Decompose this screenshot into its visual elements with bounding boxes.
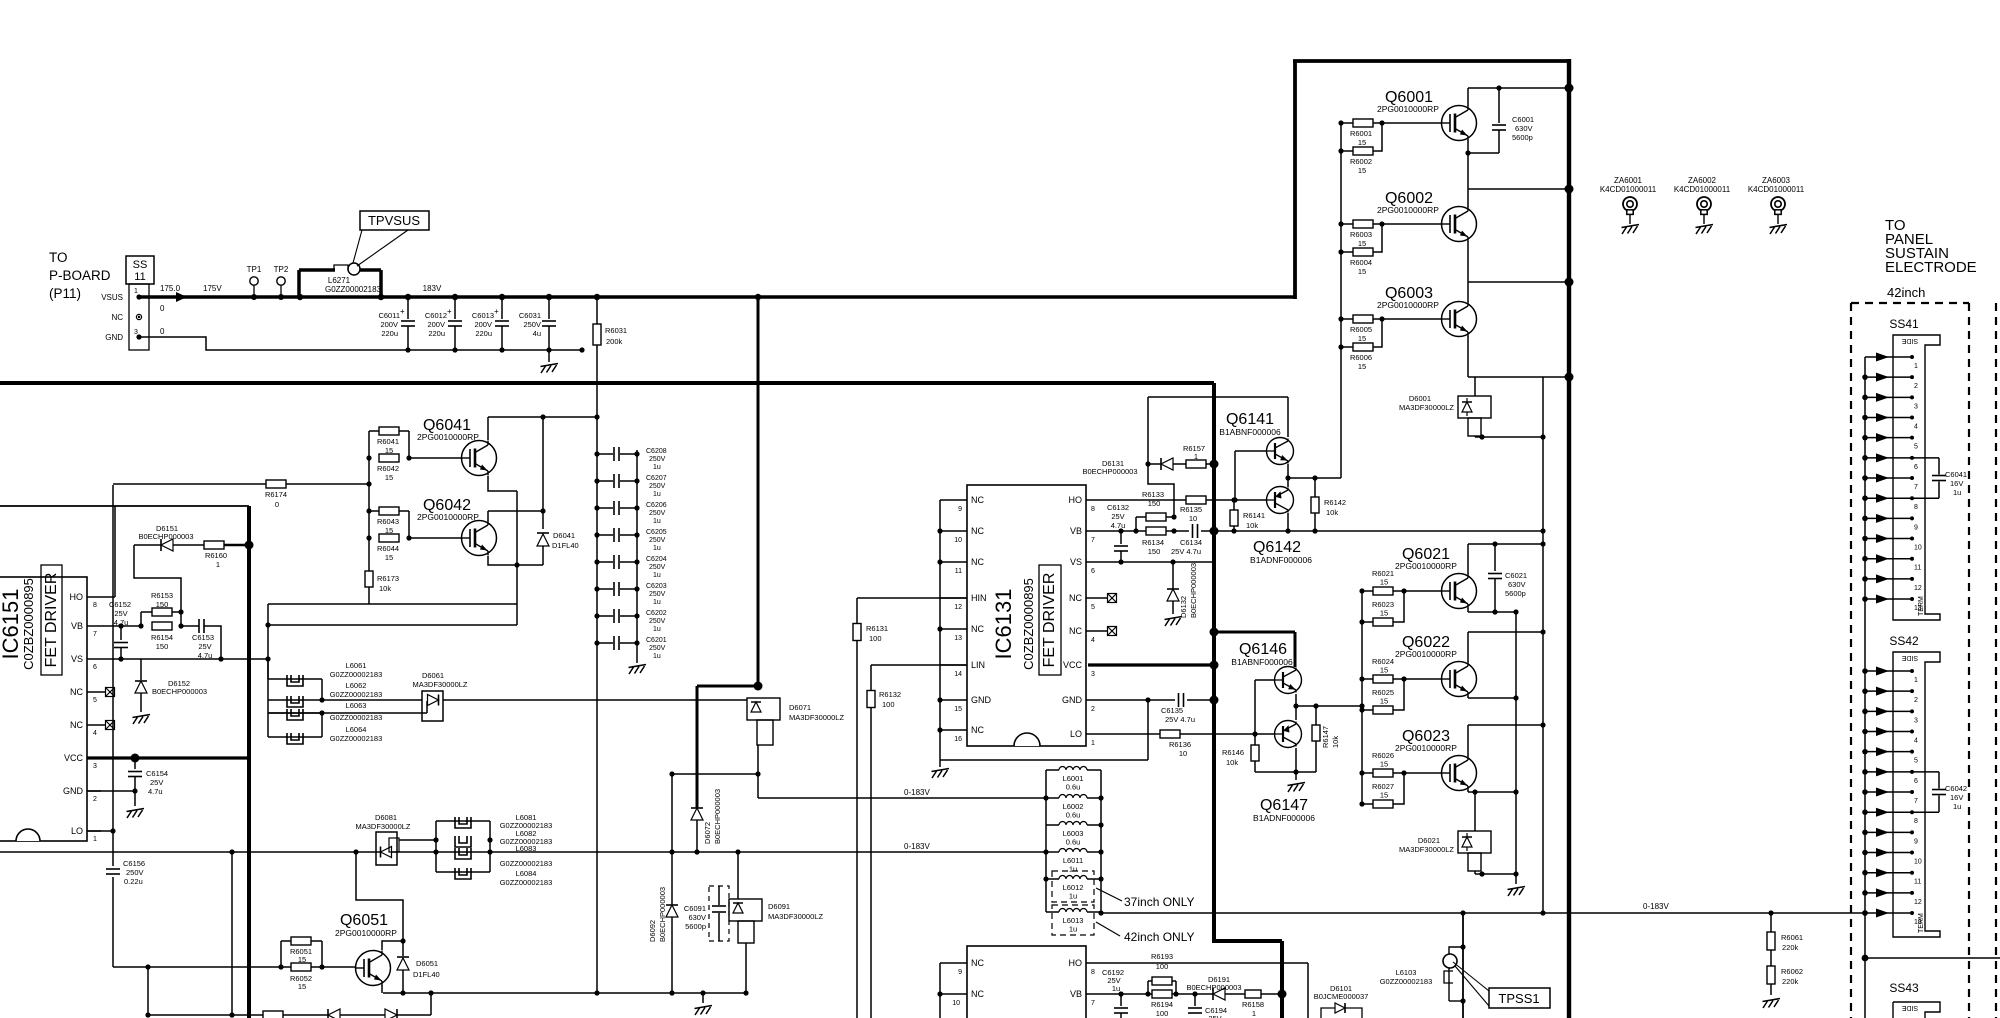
pin 8 HO IC6151 [87, 596, 101, 598]
svg-text:R6136: R6136 [1169, 740, 1191, 749]
resistor R6027 [1362, 803, 1373, 805]
svg-text:5600p: 5600p [1512, 133, 1533, 142]
wire thick VCC branch IC6151 [87, 756, 249, 759]
svg-text:2PG0010000RP: 2PG0010000RP [417, 512, 479, 522]
diode D6071 module [747, 698, 780, 720]
svg-text:11: 11 [1914, 565, 1921, 572]
svg-text:R6134: R6134 [1142, 538, 1164, 547]
wire rail y=377 [1468, 376, 1569, 378]
svg-text:1u: 1u [653, 626, 661, 633]
svg-text:C6042: C6042 [1945, 784, 1967, 793]
svg-text:15: 15 [1358, 362, 1366, 371]
inductor L6083 [455, 848, 471, 859]
svg-text:R6062: R6062 [1781, 967, 1803, 976]
svg-text:37inch ONLY: 37inch ONLY [1124, 895, 1194, 909]
svg-text:C6205: C6205 [646, 529, 667, 536]
pin 9 NC IC6132 [940, 962, 967, 964]
node 0-183V to SS42 [1101, 912, 1865, 914]
inductor L6064 [268, 736, 322, 738]
svg-text:1u: 1u [653, 599, 661, 606]
connector SS11 [126, 256, 154, 284]
svg-text:MA3DF30000LZ: MA3DF30000LZ [768, 912, 823, 921]
svg-text:R6042: R6042 [377, 464, 399, 473]
svg-text:25V: 25V [1111, 512, 1124, 521]
svg-text:250V: 250V [649, 456, 666, 463]
pin NC [136, 314, 141, 319]
pin 10 SS42 [1865, 852, 1912, 854]
svg-text:3: 3 [1914, 403, 1918, 410]
svg-text:C0ZBZ0000895: C0ZBZ0000895 [21, 578, 36, 670]
wire collector bus x=1543 [1542, 377, 1544, 913]
wire VB line IC6132 [1105, 993, 1282, 995]
diode bottom 2 [385, 1009, 397, 1018]
op-amp U IC6132 FET driver chip partial [967, 946, 1086, 1018]
svg-text:2: 2 [1914, 697, 1918, 704]
pin 10 NC IC6131 [940, 530, 967, 532]
svg-text:R6173: R6173 [377, 574, 399, 583]
svg-text:5: 5 [1091, 604, 1095, 611]
wire emitter Q6042 [488, 556, 543, 565]
svg-text:630V: 630V [1515, 124, 1533, 133]
svg-text:1u: 1u [653, 653, 661, 660]
resistor R6051 [281, 940, 291, 942]
svg-text:ZA6003: ZA6003 [1762, 176, 1791, 185]
svg-text:TO: TO [49, 250, 68, 265]
svg-text:6: 6 [93, 664, 97, 671]
node dot collector bus to 0-183V [1540, 910, 1545, 915]
capacitor C6192 [1120, 994, 1122, 1006]
wire cap bank right bus [636, 450, 638, 663]
pin 8 HO IC6131 [1086, 499, 1105, 501]
capacitor C6041 [1912, 457, 1939, 459]
capacitor C6204 [597, 561, 613, 563]
svg-text:K4CD01000011: K4CD01000011 [1600, 185, 1657, 194]
resistor R6006 [1341, 346, 1353, 348]
resistor R6134 [1146, 527, 1166, 535]
capacitor C6152 [120, 626, 122, 640]
resistor R6052 [291, 963, 311, 971]
NC pin 5 termination [1105, 597, 1108, 599]
svg-text:250V: 250V [649, 645, 666, 652]
wire collector Q6042 [487, 511, 489, 521]
wire HO line IC6132 [1105, 962, 1308, 964]
resistor R6061 [1770, 913, 1772, 995]
svg-text:9: 9 [1914, 524, 1918, 531]
svg-text:G0ZZ00002183: G0ZZ00002183 [330, 713, 383, 722]
svg-text:NC: NC [971, 526, 984, 536]
svg-text:SS: SS [133, 259, 148, 271]
svg-text:200V: 200V [380, 320, 398, 329]
svg-text:0: 0 [160, 327, 165, 336]
wire thick drop to D6071 [757, 297, 760, 688]
svg-text:Q6051: Q6051 [340, 912, 388, 929]
svg-text:C6156: C6156 [123, 859, 145, 868]
svg-text:C6204: C6204 [646, 556, 667, 563]
pin 10 NC IC6132 [940, 993, 967, 995]
svg-text:C6021: C6021 [1505, 571, 1527, 580]
wire emitter bus x=1516 [1515, 612, 1517, 874]
svg-text:4: 4 [1091, 637, 1095, 644]
diode D6151 [134, 545, 181, 626]
capacitor C6132 [1120, 531, 1122, 544]
pin 3 SS42 [1865, 710, 1912, 712]
svg-text:L6061: L6061 [346, 661, 367, 670]
pin 3 SS41 [1865, 396, 1912, 398]
wire emitter Q6141 node [1287, 464, 1289, 487]
svg-text:2: 2 [93, 796, 97, 803]
resistor R6005 [1341, 318, 1353, 320]
svg-text:25V: 25V [150, 778, 163, 787]
inductor L6103 test point [1460, 944, 1465, 949]
svg-text:2PG0010000RP: 2PG0010000RP [1395, 743, 1457, 753]
svg-text:B0ECHP000003: B0ECHP000003 [152, 687, 207, 696]
wire NC bus IC6131 [939, 500, 941, 760]
svg-text:9: 9 [958, 969, 962, 976]
ground [1515, 874, 1517, 884]
svg-text:0-183V: 0-183V [904, 788, 930, 797]
resistor R6194 [1152, 990, 1172, 998]
capacitor C6205 [597, 534, 613, 536]
svg-text:2: 2 [1914, 383, 1918, 390]
pin 4 NC IC6131 [1086, 630, 1105, 632]
svg-text:FET DRIVER: FET DRIVER [1041, 573, 1058, 668]
svg-text:B1ABNF000006: B1ABNF000006 [1231, 657, 1293, 667]
resistor R6174 [113, 483, 266, 485]
svg-text:42inch ONLY: 42inch ONLY [1124, 930, 1194, 944]
pin 8 SS42 [1865, 811, 1912, 813]
inductor L6011 [1046, 851, 1059, 853]
svg-text:9: 9 [1914, 838, 1918, 845]
capacitor C6042 [1912, 771, 1939, 773]
node dots on VB output line [1210, 527, 1219, 536]
op-amp U IC6131 FET driver chip [967, 485, 1086, 746]
svg-text:NC: NC [1069, 593, 1082, 603]
svg-text:D1FL40: D1FL40 [552, 541, 579, 550]
capacitor C6208 [597, 453, 613, 455]
svg-text:C6207: C6207 [646, 475, 667, 482]
dashed outline 37inch option [1052, 871, 1094, 902]
resistor R6153 [140, 612, 142, 626]
svg-text:25V: 25V [114, 609, 127, 618]
svg-text:5600p: 5600p [685, 922, 706, 931]
test point TPVSUS callout box [360, 211, 429, 230]
wire connector bus [1864, 357, 1866, 1018]
svg-text:11: 11 [1914, 879, 1921, 886]
svg-text:LIN: LIN [971, 660, 985, 670]
svg-text:GND: GND [1062, 695, 1083, 705]
pin 12 SS41 [1865, 578, 1912, 580]
svg-text:ZA6002: ZA6002 [1688, 176, 1717, 185]
svg-text:R6031: R6031 [605, 326, 627, 335]
svg-text:16V: 16V [1950, 479, 1963, 488]
wire riser x=1463 from lower bank [1462, 913, 1464, 1018]
diode D6191 [1213, 988, 1225, 1000]
capacitor C6202 [597, 615, 613, 617]
svg-text:R6141: R6141 [1243, 511, 1265, 520]
svg-text:15: 15 [1380, 578, 1388, 587]
svg-text:C6201: C6201 [646, 637, 667, 644]
pin 1 SS42 [1865, 670, 1912, 672]
svg-text:LO: LO [1070, 729, 1082, 739]
pin 7 VB IC6151 [87, 625, 101, 627]
svg-text:15: 15 [1358, 138, 1366, 147]
svg-text:10: 10 [1179, 749, 1187, 758]
svg-text:GND: GND [63, 786, 84, 796]
svg-text:SS42: SS42 [1889, 634, 1919, 648]
inductor L6063 [268, 712, 322, 714]
svg-text:TPSS1: TPSS1 [1498, 991, 1539, 1006]
svg-text:100: 100 [1156, 962, 1169, 971]
svg-text:6: 6 [1914, 778, 1918, 785]
svg-text:0.22u: 0.22u [124, 877, 143, 886]
inductor L6062 [268, 699, 322, 701]
inductor bank L6081-L6084 buses [435, 821, 437, 872]
wire collector Q6022 [1467, 632, 1469, 662]
pin 5 NC IC6131 [1086, 597, 1105, 599]
svg-text:1u: 1u [1953, 488, 1961, 497]
pin 5 NC IC6151 [87, 691, 101, 693]
diode D6061 [322, 699, 422, 701]
wire GND pin 2 [87, 790, 135, 792]
svg-text:1: 1 [93, 836, 97, 843]
pin 12 HIN IC6131 [940, 597, 967, 599]
svg-text:R6131: R6131 [866, 624, 888, 633]
wire emitter Q6051 [381, 985, 383, 993]
svg-text:L6083: L6083 [516, 844, 537, 853]
pin 7 VB IC6132 [1086, 993, 1105, 995]
svg-text:C6134: C6134 [1180, 538, 1202, 547]
svg-text:2PG0010000RP: 2PG0010000RP [1395, 649, 1457, 659]
svg-text:SS43: SS43 [1889, 981, 1919, 995]
svg-text:D6081: D6081 [375, 813, 397, 822]
svg-text:R6147: R6147 [1321, 726, 1330, 748]
capacitor C6156 [106, 868, 120, 870]
svg-text:R6153: R6153 [151, 591, 173, 600]
svg-text:220u: 220u [428, 329, 445, 338]
svg-text:25V: 25V [1208, 1014, 1221, 1018]
svg-text:NC: NC [111, 313, 123, 322]
svg-text:C6206: C6206 [646, 502, 667, 509]
svg-text:HO: HO [1069, 958, 1083, 968]
svg-text:R6001: R6001 [1350, 129, 1372, 138]
ground [1165, 617, 1183, 620]
svg-text:C6153: C6153 [192, 633, 214, 642]
svg-text:G0ZZ00002183: G0ZZ00002183 [330, 670, 383, 679]
svg-text:100: 100 [882, 700, 895, 709]
capacitor C6012 [454, 297, 456, 319]
svg-text:R6044: R6044 [377, 544, 399, 553]
svg-text:15: 15 [1380, 760, 1388, 769]
svg-text:VSUS: VSUS [101, 293, 123, 302]
pin 6 VS IC6131 [1086, 561, 1105, 563]
inductor L6013 [1046, 911, 1059, 913]
diode D6021 module [1474, 792, 1476, 831]
svg-text:Q6146: Q6146 [1239, 641, 1287, 658]
resistor R6146 [1254, 734, 1256, 745]
svg-text:C6041: C6041 [1945, 470, 1967, 479]
pin 16 NC IC6131 [940, 729, 967, 731]
svg-text:250V: 250V [649, 591, 666, 598]
svg-text:SIDE: SIDE [1902, 1004, 1919, 1011]
svg-text:2PG0010000RP: 2PG0010000RP [1395, 561, 1457, 571]
svg-text:7: 7 [1091, 537, 1095, 544]
svg-text:4.7u: 4.7u [148, 787, 163, 796]
resistor R6031 [596, 297, 598, 994]
pin 10 SS41 [1865, 538, 1912, 540]
svg-text:MA3DF30000LZ: MA3DF30000LZ [1399, 403, 1454, 412]
pin 7 VB IC6131 [1086, 530, 1105, 532]
resistor R6062 [1767, 966, 1775, 984]
svg-text:R6003: R6003 [1350, 230, 1372, 239]
resistor R6132 [870, 665, 872, 1018]
svg-text:R6005: R6005 [1350, 325, 1372, 334]
svg-text:NC: NC [971, 557, 984, 567]
svg-text:D6001: D6001 [1409, 394, 1431, 403]
resistor R6131 [856, 598, 858, 1018]
wire dashed second box [1995, 303, 1997, 1018]
wire emitter Q6041 [488, 476, 517, 491]
svg-text:R6061: R6061 [1781, 933, 1803, 942]
svg-text:2PG0010000RP: 2PG0010000RP [1377, 104, 1439, 114]
svg-text:R6158: R6158 [1242, 1000, 1264, 1009]
pin 11 NC IC6131 [940, 561, 967, 563]
svg-text:IC6131: IC6131 [991, 589, 1016, 660]
ground [695, 1006, 713, 1009]
wire emitter Q6003 [1467, 336, 1469, 377]
node 0-183V upper [758, 797, 1046, 799]
svg-text:G0ZZ00002183: G0ZZ00002183 [325, 285, 382, 294]
svg-text:1: 1 [1194, 452, 1198, 461]
svg-text:5600p: 5600p [1505, 589, 1526, 598]
resistor R6023 [1362, 621, 1373, 623]
wire base Q6023 [1404, 772, 1441, 774]
diode D6072 [696, 808, 698, 852]
svg-text:B0ECHP000003: B0ECHP000003 [1189, 563, 1198, 618]
wire collector Q6001 [1467, 88, 1469, 106]
pin 13 SS41 [1865, 598, 1912, 600]
svg-text:10: 10 [952, 1000, 960, 1007]
svg-text:0: 0 [160, 304, 165, 313]
pin 9 SS41 [1865, 517, 1912, 519]
svg-text:R6132: R6132 [879, 690, 901, 699]
ground [541, 364, 559, 367]
svg-text:13: 13 [954, 635, 962, 642]
op-amp U IC6151 FET driver chip [0, 577, 87, 841]
wire base Q6041 [409, 457, 461, 459]
svg-text:D6051: D6051 [416, 959, 438, 968]
inductor L6012 [1046, 878, 1059, 880]
svg-text:10k: 10k [1331, 736, 1340, 748]
svg-text:B0ECHP000003: B0ECHP000003 [658, 887, 667, 942]
svg-text:7: 7 [1914, 798, 1918, 805]
label 37inch ONLY [1096, 888, 1122, 901]
svg-text:15: 15 [1380, 609, 1388, 618]
wire thick elbow to D6072 [697, 685, 758, 688]
pin 5 SS42 [1865, 751, 1912, 753]
capacitor C6201 [597, 642, 613, 644]
svg-text:150: 150 [1148, 547, 1161, 556]
svg-text:15: 15 [1380, 697, 1388, 706]
svg-text:0-183V: 0-183V [1643, 902, 1669, 911]
diode bottom 1 [328, 1009, 340, 1018]
svg-text:0.6u: 0.6u [1066, 838, 1081, 847]
diode D6081 [376, 832, 397, 865]
svg-text:B1ABNF000006: B1ABNF000006 [1219, 427, 1281, 437]
inductor L6081 [436, 820, 490, 822]
pin 1 SS41 [1865, 356, 1912, 358]
pin 7 SS41 [1865, 477, 1912, 479]
svg-text:R6160: R6160 [205, 551, 227, 560]
svg-text:+: + [400, 307, 405, 316]
resistor R6135 on HO line [1186, 496, 1206, 504]
pin 2 GND IC6151 [87, 790, 101, 792]
svg-text:2PG0010000RP: 2PG0010000RP [417, 432, 479, 442]
svg-text:TPVSUS: TPVSUS [368, 213, 420, 228]
svg-text:0: 0 [275, 500, 279, 509]
wire top loop to Q6141 [1148, 396, 1288, 398]
svg-text:200k: 200k [606, 337, 623, 346]
svg-text:250V: 250V [649, 510, 666, 517]
wire gate feed riser x=1341 [1340, 123, 1342, 478]
svg-text:150: 150 [156, 600, 169, 609]
diode D6001 module [1474, 377, 1476, 396]
resistor R6157 [1186, 460, 1206, 468]
svg-text:250V: 250V [126, 868, 144, 877]
svg-text:G0ZZ00002183: G0ZZ00002183 [1380, 977, 1433, 986]
svg-text:1u: 1u [1069, 892, 1077, 901]
wire emitter Q6147 to ground [1295, 748, 1297, 772]
pin 9 NC IC6131 [940, 499, 967, 501]
svg-text:630V: 630V [688, 913, 706, 922]
capacitor C6154 [131, 754, 140, 763]
capacitor C6135 [1105, 699, 1175, 701]
svg-text:200V: 200V [427, 320, 445, 329]
svg-text:C6013: C6013 [472, 311, 494, 320]
resistor R6147 [1312, 725, 1320, 741]
wire VS line [1105, 561, 1214, 563]
svg-text:NC: NC [971, 725, 984, 735]
svg-text:+: + [447, 307, 452, 316]
pin 11 SS41 [1865, 558, 1912, 560]
svg-text:R6002: R6002 [1350, 157, 1372, 166]
svg-text:13: 13 [1914, 605, 1922, 612]
svg-text:100: 100 [869, 634, 882, 643]
pin 11 SS42 [1865, 872, 1912, 874]
svg-text:3: 3 [93, 763, 97, 770]
svg-text:K4CD01000011: K4CD01000011 [1748, 185, 1805, 194]
svg-text:D6092: D6092 [648, 920, 657, 942]
capacitor C6134 [1192, 524, 1194, 538]
svg-text:MA3DF30000LZ: MA3DF30000LZ [789, 713, 844, 722]
svg-text:13: 13 [1914, 919, 1922, 926]
node dots on VSUS line [405, 294, 411, 300]
wire L bank buses [1045, 770, 1047, 912]
svg-text:SIDE: SIDE [1902, 337, 1919, 344]
svg-text:1u: 1u [653, 545, 661, 552]
svg-text:NC: NC [971, 958, 984, 968]
wire thick elbow to Q6146 [1214, 631, 1295, 634]
diode D6131 [1148, 463, 1161, 465]
wire collector Q6051 [382, 941, 403, 950]
svg-text:250V: 250V [649, 483, 666, 490]
wire bottom line y=1015 [148, 1014, 431, 1016]
svg-text:D1FL40: D1FL40 [413, 970, 440, 979]
ground [127, 809, 145, 812]
svg-text:GND: GND [971, 695, 992, 705]
pin 4 NC IC6151 [87, 724, 101, 726]
svg-text:1u: 1u [1069, 925, 1077, 934]
wire ground line y=993 [383, 992, 746, 994]
